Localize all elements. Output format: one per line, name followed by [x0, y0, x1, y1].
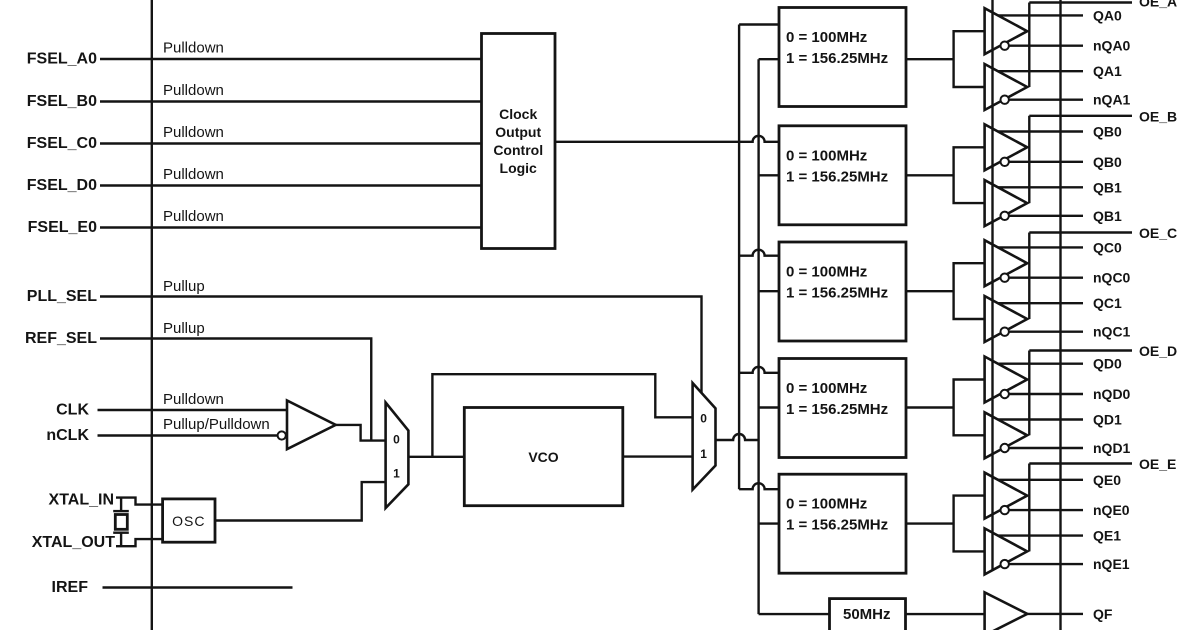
- wire output enable OE_A: [1029, 3, 1132, 88]
- output buffer QE0/nQE0: [985, 473, 1028, 519]
- svg-text:0 = 100MHz: 0 = 100MHz: [786, 147, 867, 164]
- wire output QC1: [998, 302, 1083, 304]
- svg-text:Pulldown: Pulldown: [163, 208, 224, 225]
- output buffer QF: [985, 592, 1028, 630]
- output buffer QC1/nQC1: [985, 296, 1028, 342]
- wire 50MHz divider to buffer QF: [906, 613, 985, 615]
- wire select bus to divider C (hop over clock bus): [739, 250, 779, 256]
- svg-text:QA1: QA1: [1093, 63, 1122, 79]
- svg-text:OE_A: OE_A: [1139, 0, 1177, 10]
- inversion bubble nQA0: [1001, 42, 1009, 50]
- svg-text:1 = 156.25MHz: 1 = 156.25MHz: [786, 168, 888, 185]
- svg-text:Pullup: Pullup: [163, 320, 205, 337]
- wire output nQD1: [1009, 447, 1083, 449]
- wire output nQD0: [1009, 393, 1083, 395]
- svg-text:OE_D: OE_D: [1139, 343, 1177, 359]
- svg-text:0 = 100MHz: 0 = 100MHz: [786, 29, 867, 46]
- svg-text:nQD1: nQD1: [1093, 440, 1131, 456]
- svg-text:Pulldown: Pulldown: [163, 82, 224, 99]
- crystal X1 bottom plate: [113, 532, 129, 534]
- svg-text:REF_SEL: REF_SEL: [25, 330, 97, 347]
- crystal X1 bottom lead: [120, 533, 122, 547]
- wire OSC output to mux M1 input 1: [215, 482, 386, 520]
- svg-text:Output: Output: [495, 124, 541, 140]
- inversion bubble nQE1: [1001, 560, 1009, 568]
- wire buffer input bracket B: [954, 147, 985, 203]
- svg-text:1 = 156.25MHz: 1 = 156.25MHz: [786, 50, 888, 67]
- wire divider E output to buffer pair: [906, 522, 954, 524]
- svg-text:QD1: QD1: [1093, 412, 1122, 428]
- divider block A: [779, 8, 906, 107]
- block Clock Output Control Logic: [482, 34, 556, 249]
- svg-text:FSEL_A0: FSEL_A0: [27, 51, 97, 68]
- wire output enable OE_D: [1029, 351, 1132, 436]
- wire FSEL_C0 to control logic: [100, 142, 482, 144]
- svg-text:OE_E: OE_E: [1139, 456, 1176, 472]
- svg-text:Logic: Logic: [500, 160, 538, 176]
- svg-text:QB0: QB0: [1093, 124, 1122, 140]
- svg-text:0 = 100MHz: 0 = 100MHz: [786, 264, 867, 281]
- inversion bubble nQD1: [1001, 444, 1009, 452]
- wire output QD0: [998, 363, 1083, 365]
- crystal X1 body: [115, 515, 127, 530]
- svg-text:nQA0: nQA0: [1093, 38, 1131, 54]
- wire clock bus to divider B: [759, 174, 779, 176]
- wire output QB0: [1009, 161, 1083, 163]
- svg-text:Pulldown: Pulldown: [163, 40, 224, 57]
- wire output nQE0: [1009, 509, 1083, 511]
- svg-text:1 = 156.25MHz: 1 = 156.25MHz: [786, 285, 888, 302]
- svg-text:OE_C: OE_C: [1139, 225, 1177, 241]
- svg-text:OE_B: OE_B: [1139, 108, 1177, 124]
- wire buffer input bracket E: [954, 496, 985, 552]
- wire output enable OE_C: [1029, 233, 1132, 320]
- svg-text:Pulldown: Pulldown: [163, 124, 224, 141]
- svg-text:nQA1: nQA1: [1093, 92, 1131, 108]
- wire output QB1: [998, 186, 1083, 188]
- svg-text:QC1: QC1: [1093, 295, 1122, 311]
- divider block E: [779, 474, 906, 573]
- wire mux M1 output to VCO: [408, 456, 464, 458]
- output buffer QD1/nQD1: [985, 412, 1028, 458]
- OE_A feed-through vertical: [991, 0, 993, 571]
- svg-text:0 = 100MHz: 0 = 100MHz: [786, 380, 867, 397]
- clock bus vertical: [757, 59, 759, 614]
- inversion bubble nQA1: [1001, 96, 1009, 104]
- svg-text:nCLK: nCLK: [46, 427, 89, 444]
- inversion bubble nQC0: [1001, 274, 1009, 282]
- svg-text:FSEL_E0: FSEL_E0: [28, 219, 97, 236]
- wire CLK to input buffer: [98, 409, 288, 411]
- svg-text:Pulldown: Pulldown: [163, 391, 224, 408]
- wire clock bus to divider E: [759, 522, 779, 524]
- wire output QB0: [998, 130, 1083, 132]
- svg-text:QB1: QB1: [1093, 179, 1122, 195]
- svg-text:QF: QF: [1093, 606, 1113, 622]
- wire output nQC1: [1009, 331, 1083, 333]
- svg-text:QE1: QE1: [1093, 528, 1121, 544]
- wire buffer input bracket A: [954, 31, 985, 87]
- svg-text:FSEL_D0: FSEL_D0: [27, 177, 97, 194]
- svg-text:XTAL_IN: XTAL_IN: [49, 492, 114, 509]
- wire select bus to divider D (hop over clock bus): [739, 367, 779, 373]
- select bus vertical: [738, 25, 740, 490]
- svg-text:nQE0: nQE0: [1093, 502, 1130, 518]
- wire output enable OE_E: [1029, 464, 1132, 552]
- svg-text:1 = 156.25MHz: 1 = 156.25MHz: [786, 401, 888, 418]
- wire output QD1: [998, 418, 1083, 420]
- inversion bubble QB0: [1001, 158, 1009, 166]
- wire divider D output to buffer pair: [906, 406, 954, 408]
- wire divider A output to buffer pair: [906, 58, 954, 60]
- wire clock bus to divider C: [759, 290, 779, 292]
- wire output nQC0: [1009, 277, 1083, 279]
- wire control logic output to select bus / divider B (hop over clock bus): [555, 136, 779, 142]
- wire FSEL_B0 to control logic: [100, 100, 482, 102]
- wire FSEL_E0 to control logic: [100, 226, 482, 228]
- crystal X1 top plate: [113, 510, 129, 512]
- input buffer U1 (CLK/nCLK): [287, 401, 336, 450]
- wire select bus to divider A: [739, 23, 779, 25]
- inversion bubble nQC1: [1001, 328, 1009, 336]
- svg-text:Pullup/Pulldown: Pullup/Pulldown: [163, 416, 270, 433]
- wire output nQA1: [1009, 98, 1083, 100]
- svg-text:1 = 156.25MHz: 1 = 156.25MHz: [786, 517, 888, 534]
- output buffer QB1/QB1: [985, 180, 1028, 226]
- svg-text:0: 0: [700, 412, 707, 426]
- svg-text:nQC1: nQC1: [1093, 324, 1131, 340]
- svg-text:nQC0: nQC0: [1093, 270, 1131, 286]
- wire VCO bypass (mux M1 output to mux M2 input 0): [432, 374, 692, 457]
- wire output QC0: [998, 246, 1083, 248]
- chip boundary right edge: [1059, 0, 1061, 630]
- wire PLL_SEL to mux M2 select: [100, 297, 702, 394]
- inversion bubble nQE0: [1001, 506, 1009, 514]
- wire divider B output to buffer pair: [906, 174, 954, 176]
- wire output QA0: [998, 14, 1083, 16]
- wire VCO output to mux M2 input 1: [623, 455, 693, 457]
- inversion bubble nCLK: [278, 431, 286, 439]
- wire buffer input bracket C: [954, 263, 985, 319]
- output buffer QB0/QB0: [985, 124, 1028, 170]
- svg-text:IREF: IREF: [52, 579, 89, 596]
- output buffer QA0/nQA0: [985, 8, 1028, 54]
- wire output QB1: [1009, 215, 1083, 217]
- svg-text:50MHz: 50MHz: [843, 606, 891, 623]
- inversion bubble nQD0: [1001, 390, 1009, 398]
- wire select bus to divider E (hop over clock bus): [739, 483, 779, 489]
- svg-text:XTAL_OUT: XTAL_OUT: [32, 534, 115, 551]
- wire output QE0: [998, 479, 1083, 481]
- svg-text:QB0: QB0: [1093, 154, 1122, 170]
- divider block D: [779, 359, 906, 458]
- VCO block: [464, 408, 623, 506]
- svg-text:QB1: QB1: [1093, 208, 1122, 224]
- svg-text:Control: Control: [493, 142, 543, 158]
- inversion bubble QB1: [1001, 212, 1009, 220]
- svg-text:CLK: CLK: [56, 402, 89, 419]
- svg-text:VCO: VCO: [528, 449, 558, 465]
- mux M1 (reference select): [386, 403, 409, 509]
- oscillator block OSC: [163, 499, 215, 542]
- wire mux M2 output to clock bus (hop over select bus): [716, 434, 759, 440]
- svg-text:1: 1: [393, 467, 400, 481]
- wire clock bus to divider D: [759, 406, 779, 408]
- wire FSEL_A0 to control logic: [100, 58, 482, 60]
- svg-text:Clock: Clock: [499, 106, 537, 122]
- output buffer QE1/nQE1: [985, 528, 1028, 574]
- wire buffer input bracket D: [954, 380, 985, 436]
- mux M2 (PLL select): [693, 383, 716, 490]
- wire clock bus to 50MHz divider: [759, 613, 830, 615]
- svg-text:FSEL_B0: FSEL_B0: [27, 93, 97, 110]
- wire XTAL_OUT to OSC: [116, 539, 163, 546]
- chip boundary left edge: [151, 0, 153, 630]
- wire output QA1: [998, 70, 1083, 72]
- svg-text:QC0: QC0: [1093, 239, 1122, 255]
- wire buffer U1 output to mux M1 input 0: [336, 425, 386, 441]
- wire FSEL_D0 to control logic: [100, 184, 482, 186]
- svg-text:QE0: QE0: [1093, 472, 1121, 488]
- output buffer QA1/nQA1: [985, 64, 1028, 110]
- crystal X1 top lead: [120, 498, 122, 512]
- wire REF_SEL to mux M1 input 0: [100, 339, 371, 441]
- wire XTAL_IN to OSC: [116, 498, 163, 505]
- svg-text:OSC: OSC: [172, 513, 205, 529]
- svg-text:nQD0: nQD0: [1093, 386, 1131, 402]
- svg-text:1: 1: [700, 447, 707, 461]
- svg-text:QA0: QA0: [1093, 7, 1122, 23]
- wire output nQA0: [1009, 45, 1083, 47]
- wire clock bus to divider A: [759, 58, 779, 60]
- wire divider C output to buffer pair: [906, 290, 954, 292]
- output buffer QC0/nQC0: [985, 240, 1028, 286]
- wire nCLK to input buffer: [98, 434, 278, 436]
- svg-text:Pulldown: Pulldown: [163, 166, 224, 183]
- svg-text:PLL_SEL: PLL_SEL: [27, 288, 97, 305]
- wire output nQE1: [1009, 563, 1083, 565]
- divider block 50MHz: [830, 599, 906, 630]
- svg-text:0: 0: [393, 432, 400, 446]
- wire IREF stub: [103, 586, 293, 588]
- divider block B: [779, 126, 906, 225]
- wire output QF: [1027, 613, 1083, 615]
- output buffer QD0/nQD0: [985, 357, 1028, 403]
- svg-text:0 = 100MHz: 0 = 100MHz: [786, 496, 867, 513]
- svg-text:nQE1: nQE1: [1093, 556, 1130, 572]
- svg-text:Pullup: Pullup: [163, 278, 205, 295]
- wire output QE1: [998, 534, 1083, 536]
- svg-text:FSEL_C0: FSEL_C0: [27, 135, 97, 152]
- svg-text:QD0: QD0: [1093, 356, 1122, 372]
- wire output enable OE_B: [1029, 116, 1132, 203]
- divider block C: [779, 242, 906, 341]
